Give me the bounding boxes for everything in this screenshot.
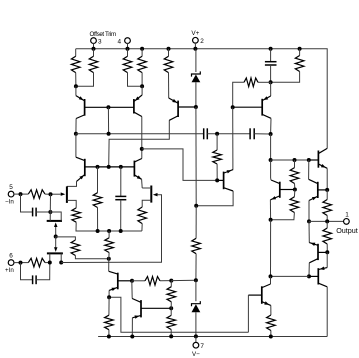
junction Q7C-D1 column <box>194 204 198 208</box>
capacitor C2 <box>21 263 33 280</box>
junction C1-J2 <box>48 210 52 214</box>
junction rail-D2 <box>194 334 198 338</box>
resistor R23 <box>170 281 172 287</box>
pin 6 +In <box>8 260 14 266</box>
svg-text:3: 3 <box>98 38 102 45</box>
wire D1 to Q5 base node <box>195 82 197 107</box>
junction Q3 base-lineB <box>107 165 111 169</box>
wire D1 column to R25 <box>195 206 197 239</box>
wire +In to R14 <box>14 262 28 264</box>
resistor R14 <box>28 258 45 267</box>
transistor Q9 <box>317 182 319 198</box>
jfet J3 <box>47 252 63 254</box>
jfet J4 <box>150 186 152 203</box>
junction line160-R16 <box>293 158 297 162</box>
wire line B <box>109 120 170 167</box>
junction R11-Q6C <box>107 257 111 261</box>
junction R22-zener line <box>169 279 173 283</box>
transistor Q14 <box>317 268 319 284</box>
junction rail-R4 <box>140 47 144 51</box>
capacitor C1 <box>21 194 33 212</box>
junction R19-Q13B-Q14E <box>325 250 329 254</box>
resistor R6 <box>299 49 301 56</box>
pin 4 Offset Trim <box>125 38 131 44</box>
junction Q5 base - D1 column <box>194 105 198 109</box>
junction Q3 base-R9 <box>96 165 100 169</box>
transistor Q13 <box>317 244 319 260</box>
resistor R13 <box>56 237 76 240</box>
resistor R15 <box>138 207 147 224</box>
junction rail-R5 <box>167 47 171 51</box>
wire output line <box>309 220 344 222</box>
junction node231-C6 <box>119 229 123 233</box>
resistor R18 <box>326 190 328 200</box>
junction rail-R6 <box>298 47 302 51</box>
resistor R20 <box>270 305 272 315</box>
wire zener col to D2 <box>195 280 197 301</box>
wire line A right <box>254 133 270 135</box>
junction J3-line <box>59 261 63 265</box>
pin 5 -In <box>8 191 14 197</box>
resistor R25 <box>192 238 201 253</box>
wire R22 to zener col <box>171 279 196 281</box>
wire line A mid <box>207 133 250 135</box>
junction rail-R20 <box>269 335 273 339</box>
resistor R22 <box>132 280 145 282</box>
svg-text:+In: +In <box>5 267 14 274</box>
wire V- pin stub <box>195 337 197 343</box>
wire Q13 emitter column <box>308 221 310 242</box>
junction X1 Q1-Q2 bases <box>106 105 110 109</box>
junction R16-Q16 base <box>293 188 297 192</box>
junction R1-R2 <box>74 84 78 88</box>
wire bus to Q14 base line <box>271 275 309 277</box>
wire V- rail <box>98 336 327 338</box>
pin 1 Output <box>344 219 350 225</box>
transistor Q10 <box>261 286 263 304</box>
svg-text:V+: V+ <box>191 30 199 37</box>
transistor Q12 <box>140 300 142 317</box>
pin 7 V- <box>193 342 199 348</box>
junction +In node <box>19 261 23 265</box>
wire D2 to rail <box>195 312 197 336</box>
svg-text:Offset Trim: Offset Trim <box>90 31 116 38</box>
wire Q8 base line <box>271 159 311 161</box>
resistor R4 <box>141 49 143 57</box>
resistor R2 <box>93 49 95 57</box>
transistor Q4 <box>133 161 135 177</box>
junction bus-276 <box>269 274 273 278</box>
transistor Q1 <box>84 99 86 116</box>
junction rail-R24 <box>169 334 173 338</box>
junction lineA-R8 <box>215 132 219 136</box>
junction zenercol-280 <box>194 278 198 282</box>
junction rail-pin3 <box>92 47 96 51</box>
transistor Q5 <box>177 101 179 117</box>
resistor R12 <box>28 190 45 199</box>
zener D2 <box>192 301 201 306</box>
svg-text:6: 6 <box>9 253 13 260</box>
resistor R24 <box>170 308 172 315</box>
junction node231-R11 <box>107 229 111 233</box>
resistor R8 <box>216 134 218 150</box>
transistor Q7 <box>223 172 225 190</box>
transistor Q16 <box>279 182 281 198</box>
resistor R21 <box>108 297 110 315</box>
wire bus 160-Q16 <box>270 160 272 178</box>
capacitor C3 <box>270 49 272 62</box>
junction line160-Q9C <box>307 158 311 162</box>
transistor Q6 <box>117 273 119 290</box>
resistor R19 <box>326 221 328 228</box>
junction Q6B-R22-Q12C <box>130 279 134 283</box>
resistor R11 <box>108 231 110 238</box>
wire Q10 base line <box>109 297 248 332</box>
svg-text:4: 4 <box>118 38 122 45</box>
transistor Q8 <box>317 151 319 168</box>
junction Q3 base-C6 <box>119 165 123 169</box>
wire line C <box>142 149 217 181</box>
junction R8-Q7 base <box>215 178 219 182</box>
wire +In line to J4 gate <box>61 195 161 263</box>
resistor R1 <box>75 49 77 57</box>
junction Q6E node <box>107 295 111 299</box>
svg-text:−In: −In <box>5 199 14 206</box>
svg-text:7: 7 <box>200 343 204 350</box>
resistor R3 <box>127 49 129 57</box>
jfet J2 <box>47 220 62 222</box>
junction R3-R4 <box>140 84 144 88</box>
wire bus 134-160 <box>270 134 272 160</box>
junction Q12B-R23 <box>169 306 173 310</box>
wire D1 column to Q7 node <box>195 107 197 206</box>
resistor R7 <box>258 81 271 83</box>
junction lineA-bus <box>269 132 273 136</box>
svg-text:2: 2 <box>200 38 204 45</box>
junction Q1C-lineA <box>74 132 78 136</box>
junction C3-R6-R7 <box>269 80 273 84</box>
junction node231-R9 <box>96 229 100 233</box>
wire line A left <box>76 133 204 135</box>
transistor Q3 <box>84 159 86 176</box>
jfet J1 <box>66 186 68 203</box>
svg-text:Output: Output <box>336 226 358 235</box>
svg-text:V−: V− <box>192 351 200 358</box>
junction rail-C3 <box>269 47 273 51</box>
wire bus 220-276 <box>270 220 272 276</box>
resistor R10 <box>72 208 81 222</box>
junction rail-V+ <box>193 47 197 51</box>
wire V+ rail <box>76 49 328 149</box>
junction rail-pin4 <box>126 47 130 51</box>
wire -In to R12 <box>14 193 28 195</box>
junction Q8E-Q9B <box>325 188 329 192</box>
zener D1 <box>192 71 201 76</box>
resistor R9 <box>97 167 99 193</box>
svg-text:1: 1 <box>345 211 349 218</box>
wire R25 to Q6 base line <box>195 254 197 281</box>
transistor Q2 <box>133 99 135 114</box>
transistor Q15 <box>261 99 263 116</box>
resistor R17 <box>293 190 296 197</box>
pin 3 Offset Trim <box>91 38 97 44</box>
junction R18-output <box>325 219 329 223</box>
wire pin4 to rail <box>127 43 129 49</box>
junction Q2C-Q4C-lineC <box>140 147 144 151</box>
capacitor C6 <box>120 167 122 197</box>
junction X1-lineA <box>107 132 111 136</box>
junction Q9E-output <box>307 219 311 223</box>
capacitor C5 <box>249 128 251 139</box>
junction Q15 base node <box>231 105 235 109</box>
junction -In node <box>19 192 23 196</box>
resistor R16 <box>294 160 296 168</box>
junction rail-Q12E <box>130 335 134 339</box>
capacitor C4 <box>203 128 205 139</box>
resistor R5 <box>168 49 170 57</box>
junction bus-R17 <box>269 218 273 222</box>
wire X1 down to line A <box>107 107 109 134</box>
junction Q13C-Q14B <box>307 274 311 278</box>
junction C2-J3 <box>48 261 52 265</box>
svg-text:5: 5 <box>9 184 13 191</box>
wire pin3 to rail <box>93 43 95 49</box>
junction bus-Q8Q9 line <box>269 158 273 162</box>
wire pin2 to rail <box>194 43 196 49</box>
wire V+ to D1 <box>195 49 197 72</box>
junction J2-J3 gates <box>54 235 58 239</box>
wire Q15 base column <box>232 107 234 169</box>
junction rail-R21 <box>107 335 111 339</box>
pin 2 V+ <box>193 37 199 43</box>
junction R12-J2 <box>49 192 53 196</box>
